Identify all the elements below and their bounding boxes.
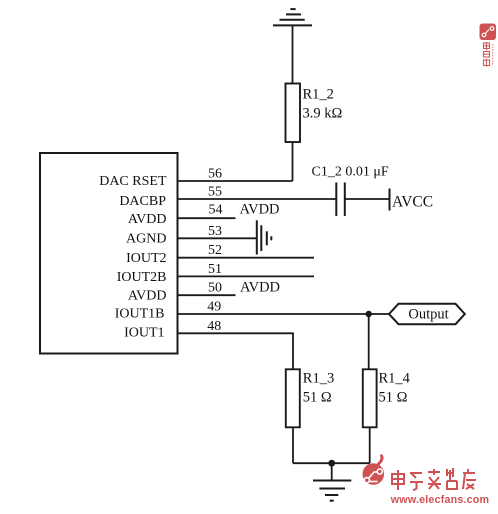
svg-text:AVDD: AVDD xyxy=(240,202,280,218)
svg-text:R1_3: R1_3 xyxy=(303,371,334,387)
svg-text:C1_2 0.01 μF: C1_2 0.01 μF xyxy=(312,165,389,180)
svg-text:51: 51 xyxy=(208,262,222,277)
svg-text:51 Ω: 51 Ω xyxy=(303,390,332,406)
svg-text:IOUT2B: IOUT2B xyxy=(117,270,167,285)
svg-text:R1_2: R1_2 xyxy=(303,87,334,103)
svg-text:AVCC: AVCC xyxy=(392,194,433,211)
svg-text:53: 53 xyxy=(208,224,222,239)
svg-text:3.9 kΩ: 3.9 kΩ xyxy=(303,106,343,122)
svg-text:51 Ω: 51 Ω xyxy=(379,390,408,406)
svg-text:www.elecfans.com: www.elecfans.com xyxy=(390,494,489,506)
svg-text:IOUT2: IOUT2 xyxy=(126,251,166,266)
svg-text:IOUT1: IOUT1 xyxy=(124,325,164,340)
svg-text:50: 50 xyxy=(208,281,222,296)
svg-text:AVDD: AVDD xyxy=(128,289,167,304)
svg-text:52: 52 xyxy=(208,243,222,258)
svg-text:48: 48 xyxy=(207,319,221,334)
svg-text:55: 55 xyxy=(208,185,222,200)
svg-text:56: 56 xyxy=(208,167,222,182)
svg-text:54: 54 xyxy=(209,203,223,218)
svg-text:DAC RSET: DAC RSET xyxy=(99,174,167,189)
svg-text:AGND: AGND xyxy=(126,232,166,247)
svg-text:IOUT1B: IOUT1B xyxy=(115,306,165,321)
svg-text:49: 49 xyxy=(207,300,221,315)
svg-text:DACBP: DACBP xyxy=(119,194,166,209)
svg-text:Output: Output xyxy=(408,307,448,323)
svg-text:AVDD: AVDD xyxy=(240,280,280,296)
svg-text:R1_4: R1_4 xyxy=(379,371,411,387)
svg-text:AVDD: AVDD xyxy=(128,212,167,227)
